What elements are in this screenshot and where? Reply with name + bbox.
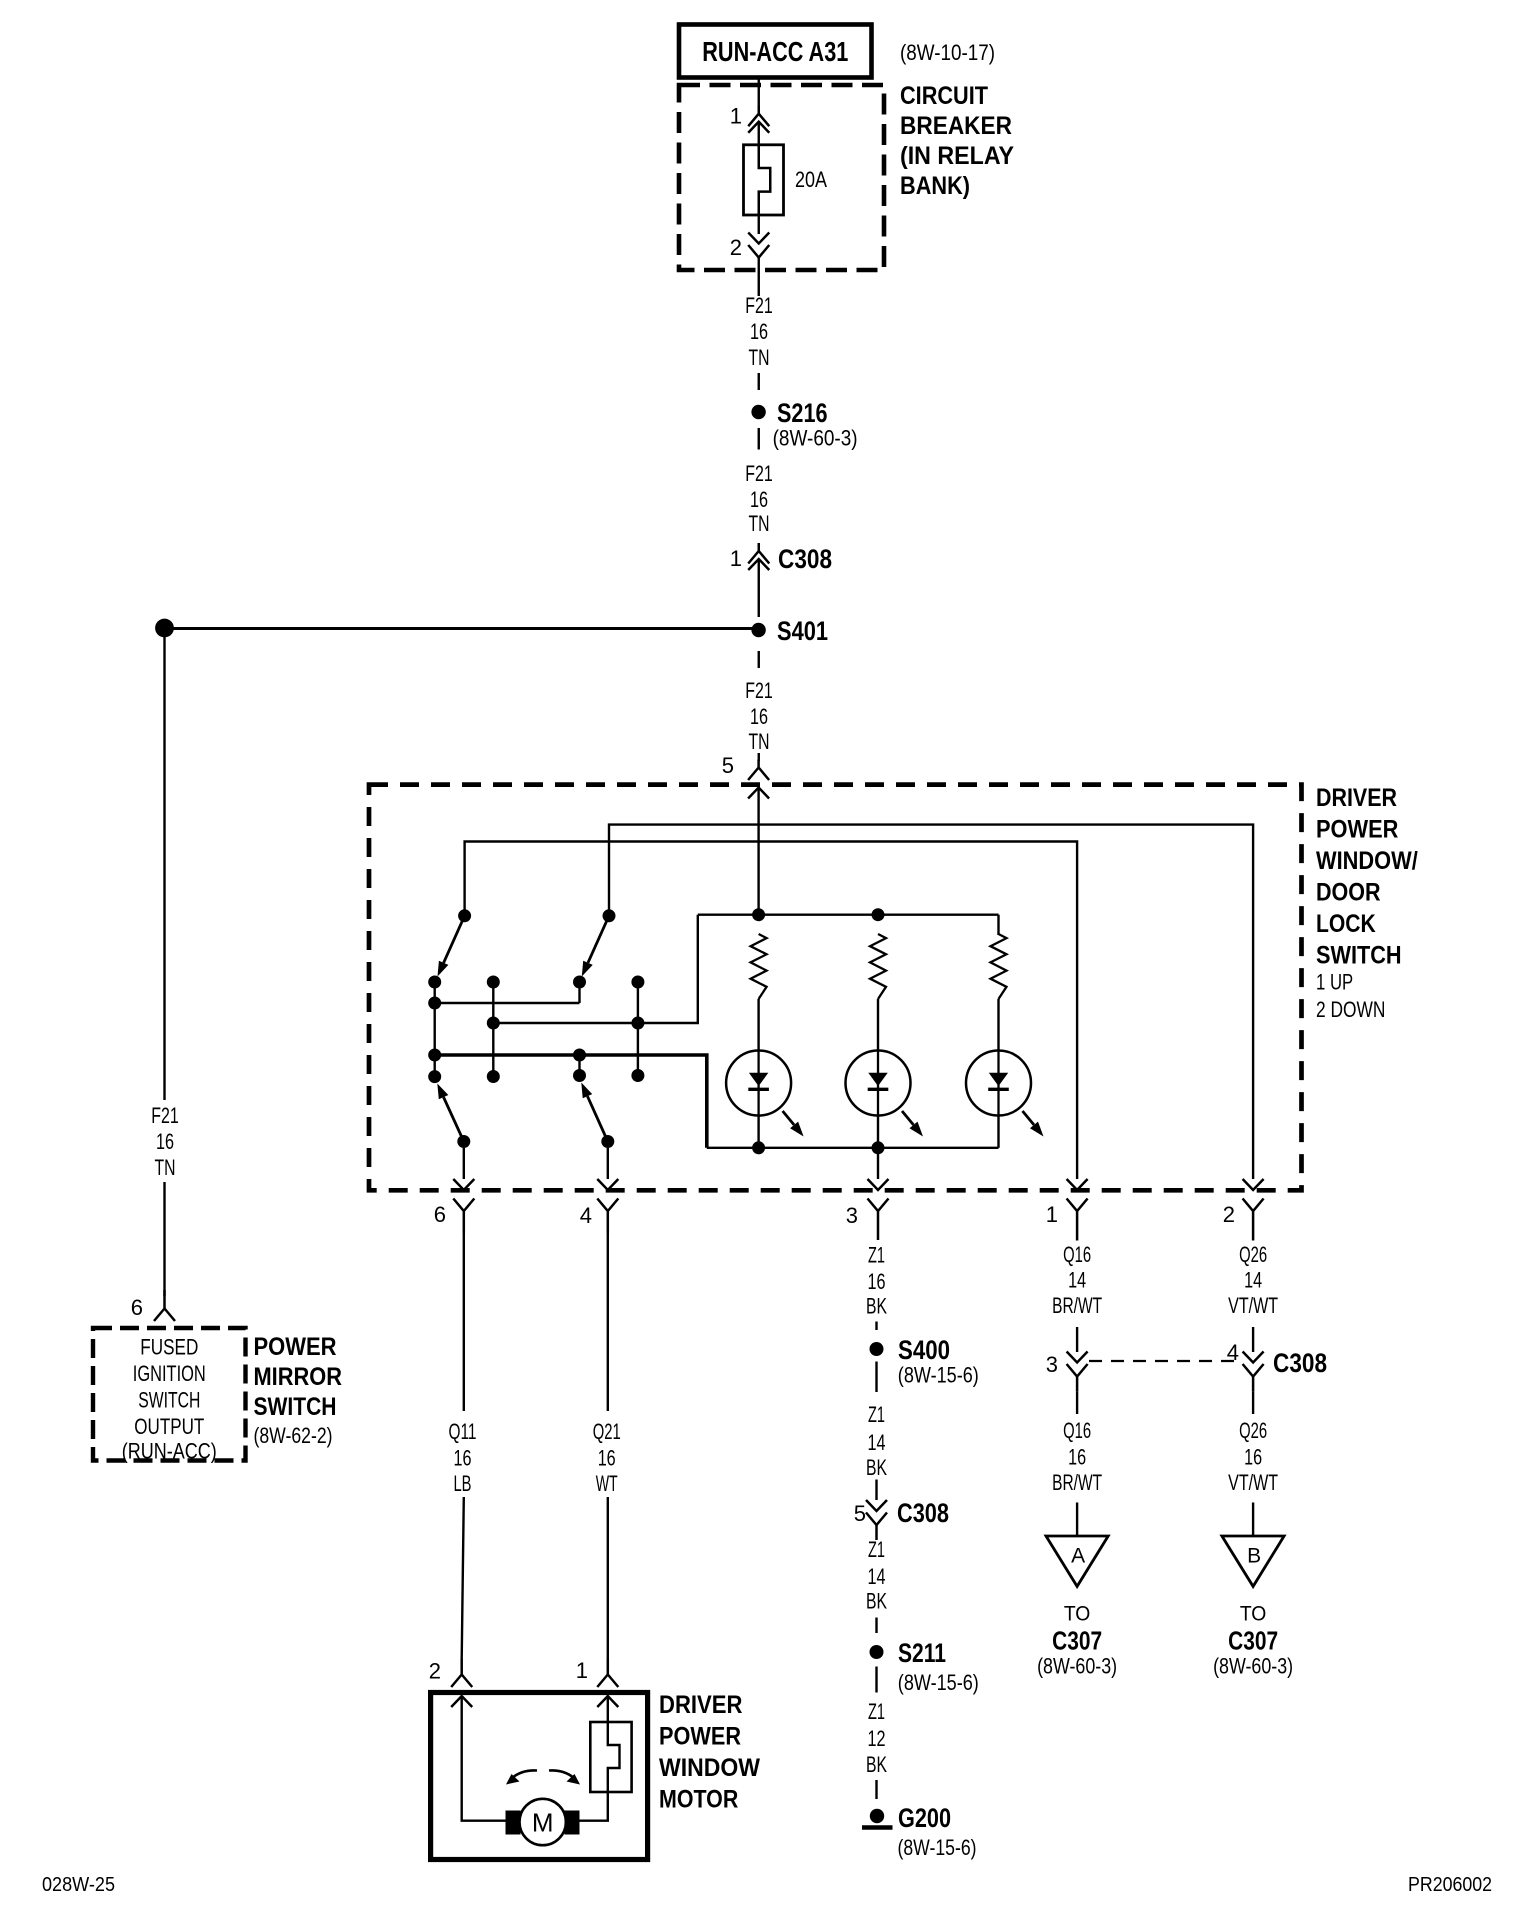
pin 5 arrow inside switch box: [748, 788, 769, 799]
svg-text:16: 16: [750, 704, 768, 729]
circuit breaker CB1 element: [759, 145, 771, 215]
svg-text:(IN RELAY: (IN RELAY: [900, 142, 1014, 170]
svg-text:(8W-62-2): (8W-62-2): [254, 1423, 333, 1448]
wire: S216 to F21 label: [758, 428, 760, 450]
svg-text:028W-25: 028W-25: [42, 1874, 115, 1896]
svg-text:BR/WT: BR/WT: [1052, 1293, 1102, 1318]
pin 6 fork (below box): [453, 1199, 474, 1234]
wire: LED2 to bottom rail: [877, 1116, 879, 1148]
svg-text:WT: WT: [596, 1471, 618, 1496]
driver power window/door lock switch box (dashed): [369, 785, 1302, 1191]
wire: motor pin 1 to breaker: [607, 1697, 609, 1722]
pin 3 arrow (inside box): [868, 1179, 889, 1190]
svg-text:S400: S400: [898, 1335, 950, 1365]
svg-text:BK: BK: [866, 1752, 887, 1777]
resistor R1: [751, 934, 767, 999]
svg-text:1: 1: [1046, 1202, 1058, 1227]
wire: R2 to LED2: [877, 999, 879, 1051]
svg-text:POWER: POWER: [1316, 816, 1398, 844]
wire: C308 pin3 below: [1076, 1392, 1078, 1414]
pin 1 arrow inside motor: [597, 1696, 618, 1707]
splice S211: [870, 1645, 884, 1659]
wire: dash above S400: [875, 1322, 877, 1331]
svg-text:(8W-15-6): (8W-15-6): [898, 1363, 979, 1388]
svg-text:A: A: [1071, 1545, 1085, 1568]
svg-text:4: 4: [580, 1203, 592, 1228]
svg-text:16: 16: [156, 1129, 174, 1154]
wire: S401 to left junction: [172, 627, 752, 630]
node: rail dot 1: [752, 908, 765, 921]
svg-text:16: 16: [750, 319, 768, 344]
wire: upper rail to pin 2 (right): [609, 825, 1253, 1179]
svg-text:S211: S211: [898, 1638, 946, 1668]
svg-text:Q26: Q26: [1239, 1418, 1267, 1443]
off-page connector B: [1222, 1536, 1284, 1586]
wire: C308 pin4 below: [1252, 1392, 1254, 1414]
svg-text:Z1: Z1: [868, 1402, 885, 1427]
pin 2 fork at motor box: [451, 1659, 472, 1687]
svg-text:Z1: Z1: [868, 1699, 885, 1724]
svg-text:3: 3: [846, 1203, 858, 1228]
rotation arrow (right): [549, 1770, 574, 1778]
wire: lower pivot left to pin 6: [463, 1148, 465, 1179]
svg-text:(RUN-ACC): (RUN-ACC): [122, 1439, 217, 1464]
switch pivot node (left): [458, 909, 471, 922]
svg-text:M: M: [532, 1807, 554, 1837]
svg-text:Q21: Q21: [593, 1419, 621, 1444]
node: bottom rail dot 1: [752, 1141, 765, 1154]
svg-text:C308: C308: [1273, 1348, 1327, 1378]
circuit breaker CB2 body (motor): [590, 1722, 631, 1792]
LED D2: [846, 1051, 911, 1116]
pin 4 arrow (inside box): [597, 1179, 618, 1190]
wire C: column1 to lamp module bottom (heavy): [435, 1055, 707, 1148]
resistor R3: [991, 934, 1007, 999]
contact column 2 (wire): [492, 982, 494, 1077]
svg-text:(8W-60-3): (8W-60-3): [773, 426, 858, 451]
svg-text:RUN-ACC A31: RUN-ACC A31: [702, 36, 848, 67]
svg-text:FUSED: FUSED: [140, 1335, 198, 1360]
svg-text:B: B: [1247, 1545, 1261, 1568]
wire: LED1 to bottom rail: [757, 1116, 759, 1148]
svg-text:(8W-15-6): (8W-15-6): [898, 1670, 979, 1695]
svg-text:2: 2: [1223, 1202, 1235, 1227]
svg-text:BK: BK: [866, 1455, 887, 1480]
switch pivot node (right): [603, 909, 616, 922]
circuit breaker box (dashed): [679, 85, 884, 270]
wire: to C308 pin 3: [1076, 1327, 1078, 1352]
motor brush (right): [566, 1812, 579, 1834]
svg-text:14: 14: [868, 1564, 886, 1589]
wire: to C308 pin 4: [1252, 1327, 1254, 1352]
svg-text:(8W-15-6): (8W-15-6): [898, 1835, 977, 1860]
svg-text:F21: F21: [745, 461, 773, 486]
wire: pin 4 to motor pin 1: [607, 1233, 609, 1411]
wire: pin 1 to breaker: [758, 122, 760, 146]
ground G200: [870, 1809, 884, 1823]
wire: dash below S400: [875, 1362, 877, 1393]
svg-text:BANK): BANK): [900, 172, 970, 200]
svg-text:DRIVER: DRIVER: [659, 1691, 742, 1719]
svg-text:2: 2: [429, 1659, 441, 1684]
svg-text:Q16: Q16: [1063, 1242, 1091, 1267]
pin 1 arrow (inside box): [1067, 1179, 1088, 1190]
pin 1 connector of circuit breaker: [748, 106, 769, 127]
pin 1 fork at motor box: [597, 1659, 618, 1687]
svg-text:TN: TN: [749, 729, 770, 754]
motor brush (left): [507, 1812, 520, 1834]
wire: left junction down: [163, 637, 165, 1100]
contact column 4 dots: [631, 976, 644, 989]
svg-text:IGNITION: IGNITION: [133, 1361, 206, 1386]
svg-text:DRIVER: DRIVER: [1316, 784, 1397, 812]
svg-text:2: 2: [730, 235, 742, 260]
pin 1 fork (below box): [1067, 1199, 1088, 1241]
svg-text:14: 14: [868, 1430, 886, 1455]
svg-text:LB: LB: [454, 1471, 472, 1496]
pin 2 arrow inside motor: [451, 1696, 472, 1707]
svg-text:1: 1: [730, 546, 742, 571]
lamp module bottom rail: [707, 1147, 999, 1149]
wire: S401 dash below: [758, 651, 760, 668]
svg-text:1: 1: [730, 104, 742, 129]
switch blade (upper right): [588, 916, 609, 963]
svg-text:S216: S216: [777, 398, 828, 428]
svg-text:C307: C307: [1228, 1625, 1278, 1655]
svg-text:Q26: Q26: [1239, 1242, 1267, 1267]
contact column 4 (wire): [637, 982, 639, 1076]
switch lower pivot (right): [601, 1135, 614, 1148]
pin 4 fork (below box): [597, 1199, 618, 1234]
svg-text:C308: C308: [778, 544, 832, 574]
off-page connector A: [1046, 1536, 1108, 1586]
junction node dot (left): [155, 619, 174, 638]
svg-text:12: 12: [868, 1726, 886, 1751]
wire: breaker to pin 2: [758, 215, 760, 234]
svg-text:20A: 20A: [795, 167, 827, 192]
splice S401: [751, 623, 765, 637]
wire: to off-page A: [1076, 1503, 1078, 1537]
pin 2 arrow (inside box): [1243, 1179, 1264, 1190]
contact column 3 dots: [573, 976, 586, 989]
node: bottom rail dot 2: [872, 1141, 885, 1154]
svg-text:Z1: Z1: [868, 1243, 885, 1268]
svg-text:16: 16: [454, 1446, 472, 1471]
svg-text:16: 16: [1068, 1445, 1086, 1470]
contact column 3 stubs: [578, 982, 580, 1003]
connector C308 pin 1 (inline): [748, 543, 769, 564]
wire: dash above S211: [875, 1618, 877, 1634]
wire: LED3 to bottom rail: [997, 1116, 999, 1148]
pin 2 fork (below box): [1243, 1199, 1264, 1241]
motor M1: [520, 1799, 566, 1845]
svg-text:PR206002: PR206002: [1408, 1874, 1492, 1896]
LED D1: [726, 1051, 791, 1116]
power feed box RUN-ACC A31: [679, 25, 872, 78]
svg-text:16: 16: [1244, 1445, 1262, 1470]
svg-text:1 UP: 1 UP: [1316, 970, 1353, 995]
svg-text:G200: G200: [898, 1803, 951, 1833]
wire: feed box to pin 1: [758, 77, 760, 106]
svg-text:(8W-60-3): (8W-60-3): [1213, 1654, 1293, 1679]
svg-text:BK: BK: [866, 1589, 887, 1614]
wire: R1 to LED1: [757, 999, 759, 1051]
svg-text:POWER: POWER: [254, 1333, 337, 1361]
wire: motor pin 2 to brush: [462, 1697, 507, 1821]
switch blade (upper left): [444, 916, 465, 963]
pin 5 fork at switch box: [748, 760, 769, 780]
svg-text:SWITCH: SWITCH: [254, 1393, 337, 1421]
svg-text:16: 16: [868, 1269, 886, 1294]
svg-text:BR/WT: BR/WT: [1052, 1470, 1102, 1495]
connector C308 pin 5 (inline): [875, 1480, 877, 1501]
splice S216: [751, 405, 765, 419]
lamp module right edge: [997, 915, 999, 935]
contact column 2 dots: [487, 976, 500, 989]
svg-text:16: 16: [598, 1446, 616, 1471]
wire: to power mirror switch pin 6: [163, 1182, 165, 1296]
wire: pin 2 to F21 label: [758, 258, 760, 297]
wire: R3 to LED3: [997, 999, 999, 1051]
svg-text:F21: F21: [151, 1103, 179, 1128]
svg-text:14: 14: [1244, 1268, 1262, 1293]
wire: pin 6 to motor pin 2: [463, 1233, 465, 1411]
svg-text:S401: S401: [777, 616, 828, 646]
pin 3 fork (below box): [868, 1199, 889, 1241]
svg-text:LOCK: LOCK: [1316, 910, 1376, 938]
resistor R2: [870, 934, 886, 999]
svg-text:3: 3: [1046, 1352, 1058, 1377]
wire A: column1 to column3 top: [435, 1002, 580, 1004]
svg-text:VT/WT: VT/WT: [1228, 1470, 1278, 1495]
svg-text:14: 14: [1068, 1268, 1086, 1293]
svg-text:C307: C307: [1052, 1625, 1102, 1655]
LED D3: [966, 1051, 1031, 1116]
svg-text:5: 5: [722, 753, 734, 778]
svg-text:2 DOWN: 2 DOWN: [1316, 997, 1385, 1022]
svg-text:CIRCUIT: CIRCUIT: [900, 82, 988, 110]
svg-text:BK: BK: [866, 1294, 887, 1319]
svg-text:(8W-10-17): (8W-10-17): [900, 40, 995, 65]
svg-text:(8W-60-3): (8W-60-3): [1037, 1654, 1117, 1679]
dashed link between C308 pins 3 and 4: [1089, 1360, 1238, 1362]
circuit breaker CB1 body: [744, 145, 784, 215]
driver power window motor box: [431, 1693, 648, 1860]
connector C308 pin 3 (inline): [1067, 1352, 1088, 1363]
connector C308 pin 4 (inline): [1243, 1352, 1264, 1363]
pin 6 arrow (inside box): [453, 1179, 474, 1190]
svg-text:OUTPUT: OUTPUT: [134, 1414, 204, 1439]
switch blade (lower left): [444, 1097, 464, 1141]
wire: to off-page B: [1252, 1503, 1254, 1537]
splice S400: [870, 1342, 884, 1356]
svg-text:6: 6: [434, 1202, 446, 1227]
pin 6 fork at fused ignition box: [154, 1290, 175, 1321]
wire: lower pivot right to pin 4: [607, 1148, 609, 1179]
svg-text:Z1: Z1: [868, 1537, 885, 1562]
svg-text:SWITCH: SWITCH: [138, 1388, 200, 1413]
wire: pin 5 to lamp rail: [757, 788, 759, 915]
svg-text:VT/WT: VT/WT: [1228, 1293, 1278, 1318]
svg-text:TO: TO: [1064, 1603, 1091, 1626]
wire: bottom rail to pin 3: [877, 1148, 879, 1179]
wire: dash above S216: [758, 373, 760, 390]
wire: breaker to brush: [578, 1792, 608, 1821]
svg-text:WINDOW: WINDOW: [659, 1754, 760, 1782]
wire: lower rail to pin 1 (right): [465, 842, 1078, 1180]
svg-text:6: 6: [131, 1295, 143, 1320]
pin 2 connector of circuit breaker: [748, 233, 769, 244]
wire: dash above G200: [875, 1780, 877, 1799]
fused ignition switch output box (dashed): [93, 1328, 246, 1461]
switch blade (lower right): [587, 1096, 607, 1141]
wire: C308 to S401: [758, 560, 760, 617]
rotation arrow (left): [512, 1770, 537, 1778]
svg-text:5: 5: [854, 1501, 866, 1526]
circuit breaker CB2 element: [608, 1722, 620, 1792]
svg-text:MOTOR: MOTOR: [659, 1786, 738, 1814]
svg-text:TN: TN: [749, 511, 770, 536]
node: rail dot 2: [872, 908, 885, 921]
contact column 1 dots: [428, 976, 441, 989]
svg-text:WINDOW/: WINDOW/: [1316, 847, 1418, 875]
svg-text:BREAKER: BREAKER: [900, 112, 1012, 140]
wire: dash below S211: [875, 1667, 877, 1693]
svg-text:TN: TN: [155, 1155, 176, 1180]
wire: to switch pin 5: [758, 753, 760, 761]
svg-text:MIRROR: MIRROR: [254, 1363, 343, 1391]
svg-text:16: 16: [750, 487, 768, 512]
svg-text:4: 4: [1227, 1340, 1239, 1365]
switch lower pivot (left): [457, 1135, 470, 1148]
svg-text:Q11: Q11: [449, 1419, 477, 1444]
wire B: column2 to lamp module top: [493, 915, 698, 1023]
contact column 1 (wire): [434, 982, 436, 1077]
lamp module top rail: [698, 914, 999, 916]
svg-text:DOOR: DOOR: [1316, 879, 1381, 907]
svg-text:TO: TO: [1240, 1603, 1267, 1626]
svg-text:C308: C308: [897, 1498, 949, 1528]
svg-text:POWER: POWER: [659, 1723, 741, 1751]
svg-text:SWITCH: SWITCH: [1316, 942, 1402, 970]
svg-text:F21: F21: [745, 293, 773, 318]
svg-text:TN: TN: [749, 345, 770, 370]
svg-text:Q16: Q16: [1063, 1418, 1091, 1443]
svg-text:1: 1: [576, 1658, 588, 1683]
svg-text:F21: F21: [745, 678, 773, 703]
